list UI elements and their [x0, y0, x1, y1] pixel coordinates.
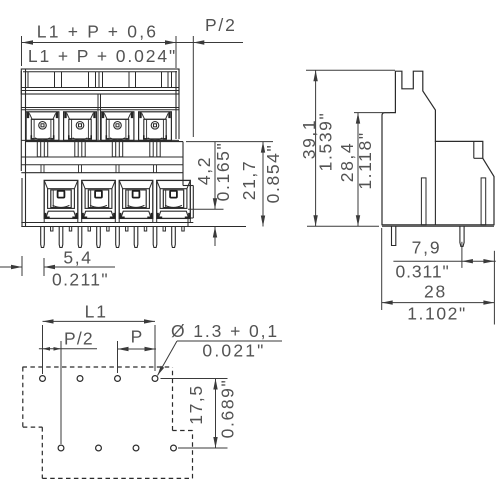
- dimension L1 bottom view: [42, 325, 44, 374]
- svg-text:L1 + P + 0,6: L1 + P + 0,6: [37, 22, 158, 42]
- side view clamp springs: [421, 178, 426, 225]
- mid band: [21, 156, 183, 158]
- side view pins: [392, 227, 396, 246]
- side view right tab: [473, 141, 475, 158]
- upper clamp unit at x=80.0: [64, 112, 97, 141]
- drill holes bottom row: [58, 445, 64, 451]
- svg-text:0.689": 0.689": [218, 379, 238, 439]
- dimension L1 + P + 0,6: [21, 36, 23, 66]
- dimension 21,7: [186, 141, 273, 143]
- bottom teeth between units: [43, 218, 45, 222]
- svg-text:17,5: 17,5: [186, 384, 206, 424]
- front view bottom edge: [21, 226, 246, 228]
- lower clamp unit at x=98.5: [82, 180, 116, 218]
- side view bottom edge: [382, 225, 494, 227]
- side view inner vertical divider: [434, 141, 436, 224]
- front view top strip: [21, 69, 179, 94]
- svg-text:4,2: 4,2: [194, 156, 214, 185]
- lower clamp unit at x=173.5: [157, 180, 191, 218]
- dimension 39,1: [306, 69, 395, 71]
- upper clamp unit at x=117.5: [101, 112, 134, 141]
- svg-text:1.118": 1.118": [355, 131, 375, 189]
- svg-text:0.211": 0.211": [52, 270, 109, 290]
- upper clamp unit at x=42.5: [26, 112, 59, 141]
- svg-text:0.021": 0.021": [202, 341, 265, 361]
- svg-text:7,9: 7,9: [412, 238, 442, 258]
- pin stubs: [51, 227, 53, 232]
- hole diameter leader: [158, 341, 178, 376]
- dimension 17,5: [161, 378, 228, 380]
- dimension P/2 bottom view: [60, 341, 62, 444]
- front view outer body edges: [20, 71, 22, 171]
- dimension 7,9: [461, 242, 463, 268]
- lower clamp unit at x=136.0: [119, 180, 153, 218]
- svg-text:P/2: P/2: [205, 15, 237, 35]
- dimension 28,4: [354, 112, 390, 114]
- svg-text:28: 28: [424, 282, 447, 302]
- lower clamp unit at x=61.0: [44, 180, 78, 218]
- svg-text:P: P: [131, 327, 145, 347]
- svg-text:0.311": 0.311": [396, 262, 450, 282]
- drill holes top row: [40, 376, 46, 382]
- svg-text:28,4: 28,4: [337, 142, 357, 182]
- svg-text:0.165": 0.165": [213, 142, 233, 202]
- front view band under strip: [21, 107, 179, 109]
- dimension 28: [381, 228, 383, 310]
- svg-text:5,4: 5,4: [63, 248, 92, 268]
- dimension 5,4: [21, 256, 23, 276]
- line under upper clamp row: [21, 139, 179, 141]
- svg-text:P/2: P/2: [64, 329, 94, 349]
- upper clamp unit at x=155.0: [139, 112, 172, 141]
- dimension P bottom view: [117, 341, 119, 373]
- svg-text:1.539": 1.539": [316, 112, 336, 172]
- hanging wire guides under upper clamps: [37, 140, 40, 156]
- lower body right side widening: [182, 142, 184, 186]
- solder pins front view: [41, 227, 45, 248]
- bottom view dashed outline (PCB drilling plan): [23, 366, 173, 368]
- dimension P/2 top: [192, 36, 194, 137]
- svg-text:21,7: 21,7: [239, 160, 259, 200]
- svg-text:Ø 1.3 + 0,1: Ø 1.3 + 0,1: [171, 321, 279, 341]
- svg-text:L1: L1: [85, 302, 108, 322]
- svg-text:L1 + P + 0.024": L1 + P + 0.024": [28, 46, 177, 66]
- dimension 4,2: [188, 208, 224, 210]
- svg-text:1.102": 1.102": [407, 304, 467, 324]
- side view outline: [382, 71, 494, 225]
- lower level top edge: [26, 141, 184, 143]
- svg-text:0.854": 0.854": [263, 144, 283, 204]
